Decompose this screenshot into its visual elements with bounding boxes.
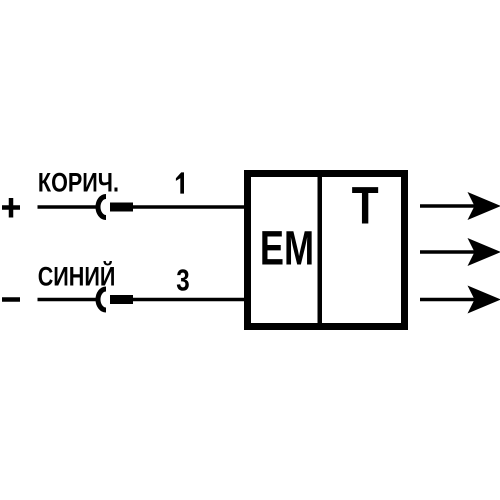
sensor body box bbox=[248, 174, 405, 327]
wire pin 3 to box bbox=[133, 298, 244, 302]
svg-text:КОРИЧ.: КОРИЧ. bbox=[38, 168, 119, 198]
connector socket XS2 bbox=[98, 289, 106, 310]
output arrow 3 bbox=[420, 286, 500, 314]
connector socket XS1 bbox=[98, 197, 106, 218]
plus terminal bbox=[2, 198, 20, 218]
pin number 1 bbox=[176, 172, 184, 193]
wire - to socket bbox=[38, 298, 97, 302]
wire pin 1 to box bbox=[133, 205, 244, 209]
svg-text:T: T bbox=[352, 177, 379, 236]
connector pin XP1 bbox=[110, 203, 133, 212]
minus terminal bbox=[2, 297, 20, 302]
divider between EM and T sections bbox=[318, 177, 323, 323]
svg-text:3: 3 bbox=[176, 263, 189, 298]
connector pin XP2 bbox=[110, 295, 133, 304]
wire + to socket bbox=[38, 205, 97, 209]
output arrow 2 bbox=[420, 238, 500, 266]
output arrow 1 bbox=[420, 192, 500, 220]
svg-text:EM: EM bbox=[260, 222, 314, 275]
